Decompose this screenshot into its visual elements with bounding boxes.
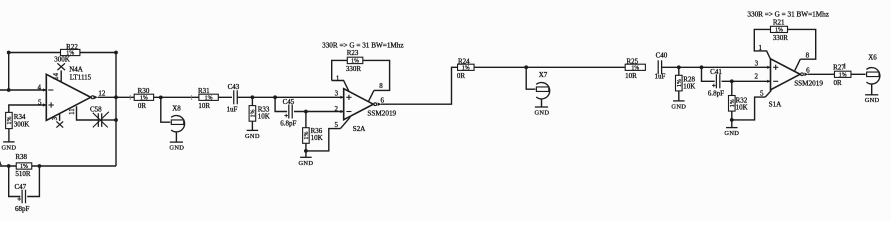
junction X8 tap [159, 96, 163, 100]
resistor R30 0R [134, 87, 153, 110]
label S1A [769, 101, 783, 109]
resistor R32 10K to ground [729, 81, 748, 111]
svg-text:6: 6 [381, 97, 385, 105]
note gain S2A [322, 41, 404, 49]
net label A [0, 158, 3, 167]
svg-text:R31: R31 [198, 87, 210, 95]
pin 8 label S1A [806, 52, 810, 60]
wire branch through C41 to S1A pin 2 [702, 67, 771, 81]
wire R38 to output node vertical [32, 165, 116, 167]
svg-text:11: 11 [69, 108, 76, 115]
svg-text:10K: 10K [258, 113, 270, 121]
svg-text:4: 4 [37, 83, 41, 91]
svg-text:GND: GND [671, 104, 686, 111]
svg-text:330R => G = 31 BW=1Mhz: 330R => G = 31 BW=1Mhz [322, 41, 404, 49]
wire S1A output to R27 [808, 73, 835, 75]
pin 5 label [38, 98, 42, 106]
svg-text:R22: R22 [66, 43, 78, 51]
svg-text:C45: C45 [283, 98, 295, 106]
wire C40 to S1A pin 3 [662, 66, 771, 68]
pin 6 label S1A [806, 66, 810, 74]
junction R28 tap [677, 65, 681, 69]
wire node A to R38 [0, 165, 17, 167]
pin 2 label S2A [334, 105, 338, 113]
wire branch through C45 to S2A pin 2 [275, 97, 344, 111]
capacitor C47 68pF [14, 183, 29, 213]
svg-text:10K: 10K [736, 104, 748, 112]
wire R36 bottom to pin 5 node [305, 143, 307, 151]
svg-text:10R: 10R [625, 72, 637, 80]
svg-text:3: 3 [755, 60, 759, 68]
capacitor C58 not fitted [90, 106, 116, 128]
pin 11 label [69, 108, 76, 115]
label N4A [69, 66, 83, 74]
pin 1 label S1A [758, 44, 762, 52]
svg-text:300K: 300K [14, 121, 30, 129]
junction top-left R22 corner [7, 51, 11, 55]
resistor R36 10K to ground [303, 112, 323, 144]
resistor R38 510R [15, 153, 31, 178]
svg-text:1: 1 [336, 74, 340, 82]
junction R38 right [38, 164, 42, 168]
label LT1115 [70, 73, 92, 81]
junction inverting input node [7, 88, 11, 92]
pin 2 label S1A [754, 73, 758, 81]
svg-text:10K: 10K [683, 82, 695, 90]
svg-text:GND: GND [169, 145, 184, 152]
svg-text:300K: 300K [54, 55, 70, 63]
svg-text:GND: GND [724, 130, 739, 137]
svg-text:SSM2019: SSM2019 [367, 109, 396, 117]
pin 5 label S1A [760, 90, 764, 98]
svg-text:330R => G = 31 BW=1Mhz: 330R => G = 31 BW=1Mhz [747, 11, 829, 19]
svg-text:1%: 1% [839, 72, 847, 78]
wire output node vertical [115, 97, 117, 166]
wire non-inverting input pin 5 from R34 [9, 105, 47, 112]
ground below X7 [535, 99, 550, 117]
resistor R24 0R [457, 57, 474, 80]
svg-text:6.8pF: 6.8pF [708, 90, 724, 98]
capacitor C43 1uF [227, 83, 240, 114]
svg-text:GND: GND [299, 160, 314, 167]
svg-text:2: 2 [334, 105, 338, 113]
resistor R28 10K to ground [676, 67, 696, 91]
resistor R27 0R [833, 63, 851, 87]
resistor R25 10R [625, 57, 645, 80]
svg-text:2: 2 [754, 73, 758, 81]
svg-text:1uF: 1uF [227, 106, 238, 114]
pin 14 no-connect stub with X [57, 63, 65, 81]
svg-text:GND: GND [535, 109, 550, 116]
pin 3 label [52, 116, 59, 120]
resistor R21 330R gain set [771, 18, 789, 42]
junction C45 branch tap [273, 95, 277, 99]
wire C47 parallel branch [9, 166, 40, 197]
wire R21 to S1A pin 8 [788, 29, 816, 70]
svg-text:330R: 330R [346, 65, 362, 73]
svg-text:C58: C58 [90, 106, 102, 114]
svg-text:330R: 330R [773, 34, 789, 42]
note gain S1A [747, 11, 829, 19]
wire inverting input pin 4 from left edge [0, 89, 46, 91]
svg-text:1%: 1% [462, 65, 470, 71]
label S2A [353, 125, 367, 133]
connector X7 [526, 67, 550, 99]
svg-text:3: 3 [52, 116, 59, 120]
svg-text:1%: 1% [7, 116, 13, 124]
svg-text:10K: 10K [311, 134, 323, 142]
wire C43 to S2A pin 3 [237, 96, 344, 98]
junction top-right R22 corner [114, 51, 118, 55]
svg-text:10R: 10R [198, 102, 210, 110]
resistor R22 300K feedback [54, 43, 80, 64]
svg-text:R21: R21 [773, 18, 785, 26]
pin 8 label S2A [379, 82, 383, 90]
svg-text:1%: 1% [251, 109, 257, 117]
label SSM2019 S1A [794, 80, 823, 88]
pin 4 label [37, 83, 41, 91]
junction pin 5 reference node S1A [730, 118, 734, 122]
pin 12 label [98, 89, 106, 97]
connector X8 [161, 97, 185, 131]
svg-text:GND: GND [865, 97, 880, 104]
junction R32 tap [730, 79, 734, 83]
junction X7 tap [524, 65, 528, 69]
svg-text:1%: 1% [631, 65, 639, 71]
op-amp S1A SSM2019 [767, 59, 808, 90]
resistor R34 300K to ground [6, 112, 30, 128]
svg-text:0R: 0R [138, 102, 147, 110]
ground below R28 [671, 91, 686, 111]
svg-text:SSM2019: SSM2019 [794, 80, 823, 88]
wire R32 bottom to pin 5 node [731, 111, 733, 120]
capacitor C45 6.8pF [280, 98, 296, 128]
resistor R33 10K to ground [249, 97, 270, 121]
svg-text:R23: R23 [347, 49, 359, 57]
svg-text:C43: C43 [228, 83, 240, 91]
pin 5 label S2A [334, 121, 338, 129]
svg-text:R27: R27 [833, 63, 845, 71]
wire S1A pin 5 to ground node [732, 90, 772, 120]
op-amp S2A SSM2019 [340, 89, 381, 120]
label SSM2019 S2A [367, 109, 396, 117]
svg-text:LT1115: LT1115 [70, 73, 92, 81]
wire S1A pin 1 to R21 [754, 29, 770, 59]
svg-text:1%: 1% [140, 95, 148, 101]
capacitor C40 1uF [655, 52, 668, 81]
svg-text:S2A: S2A [353, 125, 367, 133]
svg-text:1%: 1% [205, 95, 213, 101]
svg-text:R30: R30 [138, 87, 150, 95]
junction output node [114, 95, 118, 99]
junction R38 left [7, 164, 11, 168]
ground below R34 [2, 129, 17, 152]
svg-text:R25: R25 [626, 57, 638, 65]
pin 11 wire to C58 [77, 106, 99, 120]
svg-text:X8: X8 [172, 105, 181, 113]
svg-text:8: 8 [379, 82, 383, 90]
svg-text:8: 8 [806, 52, 810, 60]
ground below R36 [299, 151, 314, 167]
wire R23 to S2A pin 8 [363, 60, 390, 101]
svg-text:C41: C41 [710, 68, 722, 76]
junction C41 branch tap [700, 65, 704, 69]
pin 3 label S1A [755, 60, 759, 68]
svg-text:510R: 510R [15, 170, 31, 178]
capacitor C41 6.8pF [708, 68, 724, 98]
svg-text:GND: GND [245, 133, 260, 140]
wire R24 to R25 [474, 66, 625, 68]
ground below X6 [865, 84, 880, 104]
wire feedback top from inverting input node to output node [9, 53, 116, 98]
svg-text:X7: X7 [539, 71, 548, 79]
svg-text:C40: C40 [656, 52, 668, 60]
op-amp N4A LT1115 [43, 74, 98, 120]
svg-text:1uF: 1uF [655, 72, 666, 80]
svg-text:1%: 1% [677, 79, 683, 87]
wire S2A pin 1 to R23 [332, 60, 349, 91]
svg-text:X6: X6 [868, 54, 877, 62]
junction R36 tap [304, 110, 308, 114]
svg-text:R38: R38 [15, 153, 27, 161]
resistor R23 330R gain set [346, 49, 363, 73]
svg-text:3: 3 [335, 90, 339, 98]
connector X6 [866, 54, 879, 84]
wire R27 to X6 [851, 73, 866, 75]
svg-text:1%: 1% [351, 59, 359, 65]
svg-text:6: 6 [806, 66, 810, 74]
svg-text:1: 1 [758, 44, 762, 52]
svg-text:0R: 0R [457, 72, 466, 80]
svg-text:R24: R24 [458, 57, 470, 65]
wire output N4A to C43 [98, 95, 232, 100]
junction C58 right [114, 118, 118, 122]
junction pin 5 reference node [304, 149, 308, 153]
pin 14 label [53, 72, 60, 79]
svg-text:5: 5 [334, 121, 338, 129]
wire S2A pin 5 to ground node [306, 117, 350, 151]
ground below X8 [169, 132, 184, 152]
wire S2A output to R24 [381, 67, 458, 104]
svg-text:1%: 1% [775, 28, 783, 34]
junction R33 tap [251, 95, 255, 99]
ground below R32 [724, 120, 739, 137]
pin 1 label S2A [336, 74, 340, 82]
svg-text:6.8pF: 6.8pF [280, 120, 296, 128]
pin 6 label S2A [381, 97, 385, 105]
svg-text:5: 5 [38, 98, 42, 106]
svg-text:1%: 1% [304, 131, 310, 139]
svg-text:14: 14 [53, 72, 60, 79]
ground below R33 [245, 121, 260, 140]
resistor R31 10R [198, 87, 218, 110]
svg-text:12: 12 [98, 89, 106, 97]
svg-text:68pF: 68pF [15, 205, 30, 213]
svg-text:C47: C47 [14, 183, 26, 191]
svg-text:S1A: S1A [769, 101, 783, 109]
svg-text:GND: GND [2, 145, 17, 152]
pin 3 no-connect stub with X [56, 114, 63, 127]
svg-text:0R: 0R [834, 79, 843, 87]
pin 3 label S2A [335, 90, 339, 98]
